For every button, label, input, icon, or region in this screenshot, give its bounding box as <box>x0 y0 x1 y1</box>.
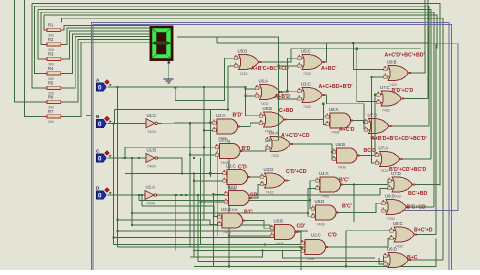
junction <box>199 201 201 203</box>
wire <box>44 15 437 49</box>
wire <box>64 39 150 101</box>
logic state input C <box>96 148 112 162</box>
wire y43 run <box>217 42 430 44</box>
AND gate U3:A <box>218 207 253 235</box>
wire U6:B in2 feed <box>331 152 333 159</box>
AND gate U2:B <box>215 138 250 166</box>
junction <box>112 123 114 125</box>
wire U7:C in1 tap <box>375 94 377 96</box>
OR gate U6:D <box>384 247 418 275</box>
svg-text:7432: 7432 <box>240 72 248 76</box>
wire U7:A out <box>402 158 431 160</box>
wire run y247 <box>118 244 305 248</box>
wire vert x308 <box>307 188 309 213</box>
svg-text:0: 0 <box>98 192 102 199</box>
logic state input B <box>96 114 112 128</box>
wire net C <box>108 157 142 159</box>
wire U5:D out <box>261 49 291 62</box>
wire U3:A out <box>245 221 271 229</box>
wire U2:C2 in2 tap <box>263 250 302 252</box>
wire <box>62 18 444 260</box>
junction <box>212 193 214 195</box>
junction <box>131 224 133 226</box>
7-segment display <box>150 26 174 61</box>
junction <box>175 194 177 196</box>
wire <box>44 15 47 30</box>
wire feed B vert <box>113 124 115 245</box>
OR gate U3:D <box>260 167 307 195</box>
wire U2:B in2 tap <box>190 154 216 156</box>
OR gate U7:D <box>388 171 428 199</box>
wire U2:C in2 tap <box>194 180 223 182</box>
wire U2:D out <box>251 184 260 198</box>
junction <box>322 103 324 105</box>
junction <box>197 194 199 196</box>
wire vert x364 <box>363 122 365 130</box>
AND gate U8:D <box>311 199 352 227</box>
svg-text:U4:A: U4:A <box>269 131 279 136</box>
AND gate U3:B <box>270 219 305 247</box>
svg-text:B+C'+D: B+C'+D <box>414 228 433 234</box>
wire y43 left stub <box>216 37 218 43</box>
junction <box>203 129 205 131</box>
svg-text:B'D'+C'D: B'D'+C'D <box>392 88 414 94</box>
junction <box>117 230 119 232</box>
wire <box>64 42 150 116</box>
junction <box>193 157 195 159</box>
wire net B <box>108 123 142 125</box>
OR gate U5:C <box>298 49 337 77</box>
resistor R3 <box>44 52 63 67</box>
junction <box>309 199 311 201</box>
svg-text:7408: 7408 <box>276 242 284 246</box>
svg-text:0: 0 <box>98 155 102 162</box>
wire U8:C in1 feed <box>346 230 390 232</box>
svg-text:B'C+CD: B'C+CD <box>407 205 427 211</box>
wire <box>15 0 47 102</box>
resistor R4 <box>44 66 63 81</box>
junction <box>261 249 263 251</box>
wire U2:C2 out <box>328 238 390 247</box>
svg-text:A+C'D: A+C'D <box>339 127 355 133</box>
svg-text:U5:D: U5:D <box>238 49 248 54</box>
junction <box>193 180 195 182</box>
svg-text:7432: 7432 <box>382 109 390 113</box>
wire U5:A out <box>282 58 298 92</box>
svg-text:7404: 7404 <box>147 129 157 134</box>
OR gate U4:A <box>266 131 310 159</box>
junction <box>356 48 358 50</box>
wire run y266 <box>194 238 436 266</box>
wire <box>25 0 47 116</box>
wire vert x375 <box>374 95 376 156</box>
wire U8:B in2 tap <box>372 76 384 78</box>
svg-text:U5:A: U5:A <box>259 79 269 84</box>
wire <box>32 3 440 185</box>
wire y48 run <box>291 48 421 50</box>
svg-text:CD': CD' <box>297 224 306 230</box>
junction <box>112 236 114 238</box>
junction <box>374 94 376 96</box>
junction <box>352 42 354 44</box>
junction <box>209 172 211 174</box>
OR gate U5:A <box>255 79 290 107</box>
wire U3:C in2 tap <box>279 98 298 100</box>
svg-text:7408: 7408 <box>306 257 314 261</box>
wire U1:B out <box>162 158 182 173</box>
wire feed U7:C in2 <box>357 49 377 102</box>
svg-text:7408: 7408 <box>223 231 231 235</box>
AND gate U4:A (second) <box>316 171 349 199</box>
svg-text:300: 300 <box>48 120 54 124</box>
svg-text:A+B'C+BC'+CD: A+B'C+BC'+CD <box>251 66 289 72</box>
wire <box>32 3 47 88</box>
svg-text:U5:C: U5:C <box>301 49 311 54</box>
wire U5:C in2 tap <box>279 65 298 67</box>
junction <box>117 86 119 88</box>
svg-text:B'C': B'C' <box>339 178 349 184</box>
svg-text:B'C': B'C' <box>342 204 352 210</box>
wire <box>41 12 47 44</box>
wire feed A vert <box>117 87 119 247</box>
svg-text:R6: R6 <box>48 95 54 100</box>
svg-text:U7:B: U7:B <box>368 113 378 118</box>
svg-text:A+C+BD+B'D': A+C+BD+B'D' <box>319 84 353 90</box>
svg-text:U7:D: U7:D <box>391 171 401 176</box>
wire U4:A2 in1 tap <box>310 180 316 182</box>
OR gate U3:C <box>298 82 353 110</box>
junction <box>189 154 191 156</box>
wire <box>38 9 47 59</box>
svg-text:U1:A: U1:A <box>146 185 156 190</box>
junction <box>174 87 176 89</box>
wire run y237 <box>114 237 291 239</box>
wire vert x310 <box>309 181 311 201</box>
wire feed D vert <box>175 195 177 251</box>
wire feed A vert 2 <box>203 87 205 220</box>
svg-text:U4:A: U4:A <box>319 171 329 176</box>
resistor R1 <box>44 23 63 38</box>
junction <box>345 265 347 267</box>
AND gate U2:A <box>213 113 243 141</box>
wire <box>424 0 426 74</box>
wire U5:A in2 tap <box>246 95 256 97</box>
svg-text:7432: 7432 <box>303 72 311 76</box>
junction <box>353 183 355 185</box>
svg-text:U8:D: U8:D <box>315 199 325 204</box>
wire <box>427 0 429 98</box>
wire run y200 <box>139 200 311 208</box>
wire U6:A in2 feed <box>323 104 326 125</box>
OR gate U5:B <box>259 106 294 134</box>
wire net A <box>108 87 256 89</box>
wire vert x346 <box>345 231 347 267</box>
resistor R5 <box>44 81 63 96</box>
svg-text:U2:B: U2:B <box>219 138 229 143</box>
wire feed Cnot vert <box>193 173 195 257</box>
junction <box>138 194 140 196</box>
svg-text:R7: R7 <box>48 109 54 114</box>
wire run y257 <box>190 251 263 258</box>
junction <box>286 90 288 92</box>
junction <box>185 194 187 196</box>
wire U7:B out <box>391 125 429 127</box>
svg-text:R5: R5 <box>48 81 54 86</box>
svg-text:R2: R2 <box>48 37 54 42</box>
junction <box>278 98 280 100</box>
wire run y250 <box>193 251 375 259</box>
wire U7:C out <box>404 98 428 100</box>
wire U4:A out <box>293 144 333 152</box>
junction <box>228 265 230 267</box>
junction <box>228 235 230 237</box>
svg-text:7432: 7432 <box>303 105 311 109</box>
wire U2:B in1 vert <box>124 147 126 158</box>
wire U2:B out <box>242 148 266 151</box>
junction <box>264 244 266 246</box>
junction <box>131 157 133 159</box>
svg-text:B'D': B'D' <box>233 113 243 119</box>
junction <box>117 219 119 221</box>
inverter U1:C <box>141 113 162 134</box>
junction <box>363 121 365 123</box>
junction <box>331 151 333 153</box>
wire U1:A out long <box>161 188 388 195</box>
svg-text:C+BD: C+BD <box>279 108 294 114</box>
svg-text:BC'D: BC'D <box>364 148 377 154</box>
OR gate U7:A <box>375 146 426 174</box>
blue wire run 3 <box>390 44 458 211</box>
inverter U1:B <box>141 148 162 169</box>
svg-text:R4: R4 <box>48 66 54 71</box>
svg-text:U3:D: U3:D <box>264 167 274 172</box>
wire U6:D out <box>411 259 444 261</box>
svg-text:U8:C: U8:C <box>393 221 403 226</box>
svg-text:U6:B: U6:B <box>336 142 346 147</box>
junction <box>189 122 191 124</box>
wire display-right feed <box>177 37 279 140</box>
resistor R6 <box>44 95 63 110</box>
wire U5:D in2 tap <box>228 65 235 67</box>
junction <box>209 122 211 124</box>
AND gate U6:A <box>326 107 356 135</box>
wire U5:D in1 feed <box>175 58 234 100</box>
wire U5:D in2 vert <box>227 66 229 110</box>
wire run y244 <box>114 244 301 246</box>
svg-text:7432: 7432 <box>271 154 279 158</box>
logic state input D <box>96 185 112 199</box>
svg-text:U6:A: U6:A <box>329 107 339 112</box>
svg-text:C'D'+CD: C'D'+CD <box>286 169 307 175</box>
junction <box>278 65 280 67</box>
svg-text:U3:C: U3:C <box>301 82 311 87</box>
svg-text:7408: 7408 <box>331 131 339 135</box>
wire U6:A out <box>353 121 365 123</box>
AND gate U6:B <box>332 142 376 170</box>
resistor R2 <box>44 37 63 52</box>
svg-text:7408: 7408 <box>338 166 346 170</box>
resistor R7 <box>44 109 63 124</box>
OR gate U7:C <box>377 85 414 113</box>
wire run y206 <box>142 206 218 217</box>
svg-text:7432: 7432 <box>266 191 274 195</box>
wire U3:C in1 tap <box>287 90 298 92</box>
wire feed Bnot vert <box>189 123 191 247</box>
svg-text:A+BC': A+BC' <box>321 66 337 72</box>
svg-text:U2:A: U2:A <box>216 113 226 118</box>
wire vert x371 <box>372 77 376 163</box>
OR gate U6:C <box>382 194 427 222</box>
svg-text:C'D: C'D <box>238 165 247 171</box>
svg-text:U8:B: U8:B <box>387 60 397 65</box>
wire <box>168 61 170 79</box>
svg-text:U2:C: U2:C <box>226 164 236 169</box>
junction <box>203 86 205 88</box>
wire U5:A/U5:B feed vert <box>246 87 260 116</box>
svg-text:U3:A: U3:A <box>221 207 231 212</box>
wire feed U8:B in1 <box>353 43 383 70</box>
wire run y261 <box>198 256 384 261</box>
wire bottom vert <box>300 247 302 270</box>
svg-text:C'D: C'D <box>328 233 337 239</box>
junction <box>180 194 182 196</box>
ground symbol <box>164 79 174 83</box>
wire U5:C out <box>325 43 327 62</box>
wire feed Bn horiz <box>115 109 228 111</box>
svg-text:7404: 7404 <box>146 201 156 206</box>
wire <box>64 25 150 30</box>
junction <box>138 157 140 159</box>
svg-text:U6:D: U6:D <box>387 247 397 252</box>
wire run y213 <box>132 213 311 216</box>
wire vert x353 <box>353 185 355 223</box>
wire U8:D out <box>338 203 382 212</box>
blue wire stub <box>86 114 92 116</box>
junction <box>181 172 183 174</box>
svg-text:U6:C: U6:C <box>385 194 395 199</box>
wire <box>41 12 434 207</box>
wire U8:C out <box>417 44 437 235</box>
svg-text:U2:D: U2:D <box>228 185 238 190</box>
svg-text:7432: 7432 <box>381 169 389 173</box>
wire U2:A out <box>240 123 260 127</box>
wire U6:B out <box>359 154 375 156</box>
svg-text:7432: 7432 <box>389 83 397 87</box>
svg-text:U7:A: U7:A <box>379 146 389 151</box>
junction <box>245 88 247 90</box>
svg-text:U5:B: U5:B <box>263 106 273 111</box>
svg-text:U1:B: U1:B <box>147 148 157 153</box>
svg-text:B'C: B'C <box>244 210 253 216</box>
AND gate U2:D <box>224 185 258 213</box>
svg-text:A'+C'D'+CD: A'+C'D'+CD <box>281 133 310 139</box>
wire U5:B out <box>286 117 326 120</box>
wire <box>38 9 431 159</box>
wire U2:B in1 feed <box>125 146 216 148</box>
wire run y220 <box>118 220 218 225</box>
wire U4:A2 in2 tap <box>308 187 316 189</box>
wire feed vert x217 <box>216 147 218 237</box>
svg-text:U3:B: U3:B <box>274 219 284 224</box>
display pin dot <box>168 62 170 64</box>
wire U7:D out <box>415 184 441 186</box>
svg-text:R1: R1 <box>48 23 54 28</box>
OR gate U8:C <box>390 221 433 249</box>
wire feed D vert 3 <box>141 195 143 206</box>
wire U2:A in2 tap <box>204 129 213 131</box>
svg-text:A+B'D+B'C+CD'+BC'D': A+B'D+B'C+CD'+BC'D' <box>371 136 427 142</box>
svg-text:7408: 7408 <box>230 208 238 212</box>
svg-text:0: 0 <box>98 121 102 128</box>
wire U2:D in2 tap <box>201 201 225 203</box>
wire U2:C in1 feed <box>125 172 223 174</box>
svg-text:7408: 7408 <box>321 195 329 199</box>
junction <box>245 86 247 88</box>
junction <box>124 157 126 159</box>
wire <box>61 18 63 22</box>
svg-text:U1:C: U1:C <box>147 113 157 118</box>
wire run y225 <box>132 225 270 228</box>
wire <box>35 6 430 126</box>
junction <box>300 246 302 248</box>
wire <box>35 6 47 73</box>
wire feed vert x229 <box>228 140 230 266</box>
svg-text:7404: 7404 <box>147 164 157 169</box>
wire <box>64 34 150 74</box>
junction <box>193 172 195 174</box>
svg-text:U2:C: U2:C <box>311 233 321 238</box>
blue wire pair run 2 <box>93 25 452 271</box>
junction <box>141 194 143 196</box>
junction <box>203 146 205 148</box>
wire feed C vert <box>131 158 133 225</box>
wire feed vert x210 <box>209 110 211 177</box>
wire <box>64 28 150 44</box>
wire U2:C out <box>250 176 261 178</box>
junction <box>370 76 372 78</box>
junction <box>227 109 229 111</box>
wire net D <box>108 194 142 196</box>
AND gate U2:C <box>223 164 253 192</box>
wire feed D vert 2 <box>197 195 199 261</box>
wire U6:D in2 feed <box>379 258 384 264</box>
wire feed vert x200 <box>200 158 202 245</box>
wire U4:A2 out <box>343 181 389 185</box>
junction <box>245 95 247 97</box>
svg-text:R3: R3 <box>48 52 54 57</box>
blue wire pair run 1 <box>92 22 450 270</box>
OR gate U7:B <box>364 113 427 143</box>
wire U3:B in2 tap <box>229 235 270 237</box>
svg-text:7408: 7408 <box>317 223 325 227</box>
wire U8:B out <box>411 72 426 74</box>
svg-text:0: 0 <box>98 84 102 91</box>
svg-text:BC'+BD: BC'+BD <box>408 191 428 197</box>
wire U3:C out <box>325 95 365 122</box>
wire run y231 <box>118 230 308 232</box>
wire feed vert x213 <box>213 195 215 266</box>
wire <box>64 37 150 88</box>
wire U2:D in1 tap <box>214 193 225 195</box>
junction <box>175 194 177 196</box>
wire feed C vert 2 <box>138 195 140 200</box>
logic state input A <box>96 77 112 91</box>
AND gate U2:C (second) <box>301 233 337 262</box>
svg-text:A+C'D'+BC'+BD': A+C'D'+BC'+BD' <box>385 53 425 59</box>
wire U3:B out <box>297 232 301 244</box>
wire U6:C out <box>409 206 435 208</box>
svg-text:U7:C: U7:C <box>380 85 390 90</box>
